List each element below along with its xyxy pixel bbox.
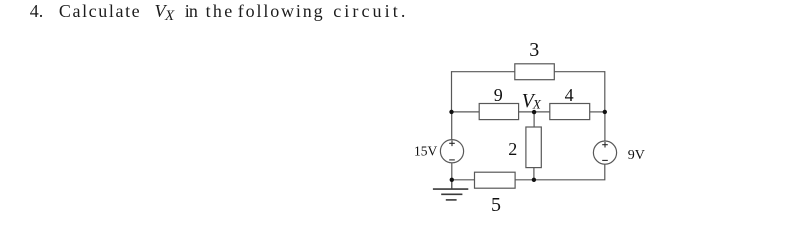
svg-text:15V: 15V <box>414 144 438 159</box>
wire bottom-right horizontal with corner to V2 <box>515 164 605 180</box>
V1 minus sign <box>449 159 455 161</box>
node junction left-middle <box>449 110 453 114</box>
node junction right-middle <box>603 110 607 114</box>
title <box>0 0 1 2</box>
wire middle center horizontal <box>519 111 550 113</box>
wire resistor R2 to bottom <box>533 168 535 180</box>
ground symbol <box>433 180 468 200</box>
wire middle left horizontal <box>452 111 480 113</box>
svg-text:2: 2 <box>508 139 517 159</box>
wire top-left horizontal <box>452 71 515 73</box>
wire left vertical to source V1 <box>451 112 453 140</box>
voltage source V1 circle <box>440 140 463 163</box>
svg-text:VX: VX <box>522 91 542 112</box>
wire middle right horizontal <box>590 111 605 113</box>
node junction bottom-center <box>532 178 536 182</box>
wire right vertical upper <box>604 71 606 112</box>
svg-text:9: 9 <box>494 85 503 105</box>
V2 plus sign <box>602 142 608 148</box>
node junction bottom-left (ground) <box>450 178 454 182</box>
node Vx junction <box>532 110 536 114</box>
svg-text:4: 4 <box>565 85 574 105</box>
svg-text:3: 3 <box>529 39 539 61</box>
resistor R9 value 9 <box>479 104 518 120</box>
wire right vertical to source V2 <box>604 112 606 142</box>
wire node Vx to resistor R2 <box>533 112 535 127</box>
V1 plus sign <box>449 141 455 147</box>
resistor R5 value 5 <box>475 172 516 188</box>
wire bottom-left horizontal <box>452 179 475 181</box>
resistor R2 value 2 <box>526 127 541 168</box>
wire source V1 to bottom node <box>451 163 453 180</box>
svg-text:5: 5 <box>491 194 501 216</box>
wire top-right horizontal <box>554 71 605 73</box>
svg-text:9V: 9V <box>628 148 645 163</box>
V2 minus sign <box>602 159 608 161</box>
wire left vertical upper <box>451 71 453 112</box>
resistor R3 value 3 <box>515 64 555 80</box>
resistor R4 value 4 <box>550 104 590 120</box>
voltage source V2 circle <box>593 141 616 164</box>
